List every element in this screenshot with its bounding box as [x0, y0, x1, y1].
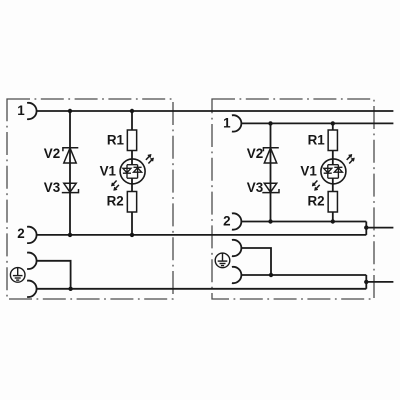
zener diode V2 (left): [63, 148, 78, 163]
svg-text:V2: V2: [247, 146, 263, 161]
wire: ground output stub y=281.9: [366, 281, 393, 283]
ground socket arc upper: [27, 253, 36, 269]
wire: left ground upper arc lead: [37, 261, 71, 289]
inner diode right (cathode up): [134, 168, 142, 172]
wire: stub out of right lamp circle bottom: [332, 178, 334, 191]
resistor R2 (right): [328, 192, 337, 213]
svg-text:V3: V3: [247, 180, 263, 195]
wire: left lamp branch bottom segment: [131, 212, 133, 235]
inner bridge frame: [123, 165, 142, 179]
node: left ground join: [68, 287, 72, 291]
node: right T2/lamp: [331, 219, 335, 223]
svg-text:R1: R1: [308, 133, 326, 148]
wire: output stub y=227.6: [366, 227, 393, 229]
ground PE symbol: [10, 268, 25, 283]
wire: left ground bus y=288.8: [37, 288, 367, 290]
wire stub into circle top: [131, 151, 133, 165]
svg-text:V3: V3: [44, 180, 60, 195]
node: T2 output merge: [364, 225, 368, 229]
svg-text:1: 1: [223, 116, 231, 131]
svg-text:V2: V2: [44, 146, 60, 161]
node: right ground join: [269, 273, 273, 277]
node: right T1/lamp: [331, 121, 335, 125]
inner diode left (right module): [324, 168, 332, 172]
inner diode right (right module): [334, 168, 342, 172]
wire: stub into right lamp circle top: [332, 151, 334, 165]
wire: right ground bus y=275: [242, 274, 366, 276]
wire: right suppressor branch x=270.5: [270, 123, 272, 221]
terminal 2 socket arc (right): [232, 213, 241, 229]
svg-text:V1: V1: [300, 163, 317, 178]
light arrows bottom-left (right module): [312, 181, 320, 191]
wire: right terminal 2 bus y=221.5: [242, 221, 366, 223]
node: right T2/suppressor: [268, 219, 272, 223]
zener diode V2 (right): [263, 148, 278, 163]
wire: left terminal 1 bus y=111: [37, 110, 394, 112]
node: left T2/lamp: [130, 233, 134, 237]
right module dash-dot enclosure: [212, 99, 374, 299]
svg-text:2: 2: [17, 226, 24, 241]
light arrows top-right (right module): [347, 154, 355, 163]
ground PE symbol (right): [215, 253, 230, 268]
wire stub out of circle bottom: [131, 178, 133, 191]
resistor R1 (left): [127, 130, 136, 151]
wire: left lamp branch top segment: [131, 111, 133, 130]
zener diode V3 (right): [262, 183, 279, 192]
zener diode V3 (left): [62, 183, 79, 192]
resistor R1 (right): [328, 130, 337, 151]
lamp/LED V1 (right): [312, 123, 354, 191]
wire: right terminal 1 bus y=123.4: [242, 122, 394, 124]
light arrows bottom-left: [111, 181, 119, 191]
lamp/LED V1 (left): [111, 151, 153, 192]
resistor R2 (left): [127, 192, 136, 213]
svg-text:1: 1: [17, 103, 25, 118]
light arrows top-right: [146, 154, 154, 163]
terminal 1 socket arc (right): [232, 115, 241, 131]
node: right T1/suppressor: [268, 121, 272, 125]
svg-text:R1: R1: [107, 133, 125, 148]
svg-text:V1: V1: [100, 163, 117, 178]
node: left T2/suppressor: [68, 233, 72, 237]
node: left T1/lamp: [130, 109, 134, 113]
left module dash-dot enclosure: [7, 99, 173, 299]
node: left T1/suppressor: [68, 109, 72, 113]
wire: right lamp branch bottom segment: [332, 212, 334, 222]
terminal 2 socket arc: [27, 227, 36, 243]
ground socket arc upper (right): [232, 240, 241, 256]
ground socket arc lower: [27, 281, 36, 297]
ground socket arc lower (right): [232, 267, 241, 283]
wire: terminal-2 merge vertical at x=366.3: [365, 222, 367, 235]
wire: left terminal 2 bus y=234.9: [37, 234, 367, 236]
svg-text:R2: R2: [307, 194, 324, 209]
node: ground output merge: [364, 280, 368, 284]
wire: right ground upper arc lead: [242, 248, 271, 275]
inner diode left (cathode down): [123, 168, 131, 172]
wire: left suppressor branch x=70: [69, 111, 71, 235]
wire: ground merge vertical at x=366.3: [365, 275, 367, 289]
svg-text:2: 2: [223, 214, 230, 229]
wire: right lamp branch top segment: [332, 123, 334, 130]
svg-text:R2: R2: [107, 194, 124, 209]
terminal 1 socket arc: [27, 103, 36, 119]
